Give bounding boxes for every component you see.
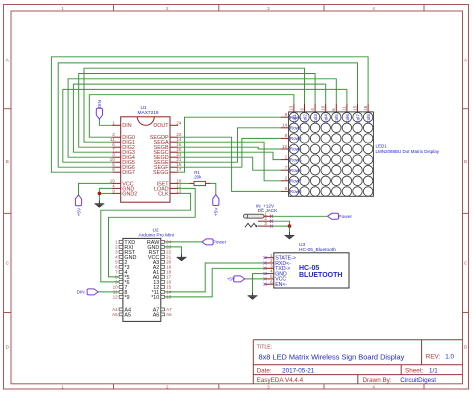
svg-text:Drawn By:: Drawn By: [363,377,392,384]
svg-text:Row8: Row8 [290,189,302,194]
svg-text:3: 3 [299,108,304,111]
ground (U2) [177,254,187,261]
svg-text:TITLE:: TITLE: [257,345,273,351]
svg-text:Col6: Col6 [345,114,350,124]
svg-text:DIG7: DIG7 [122,170,135,176]
svg-text:A6: A6 [166,312,172,317]
wire DIG7 to Col8 [51,57,368,172]
LED matrix LED1 LMN2088BU [281,104,440,196]
svg-text:4: 4 [310,108,315,111]
svg-text:Date:: Date: [257,368,272,375]
wire +5V flag to U3 VCC [245,278,265,280]
svg-text:DIN: DIN [97,100,103,109]
ground (DC jack) [285,232,295,239]
svg-text:13: 13 [176,188,182,193]
svg-text:DIN: DIN [77,290,85,295]
wire DIG1 to Col2 [84,68,305,142]
svg-text:Power: Power [213,240,227,246]
svg-text:LED1: LED1 [376,144,388,149]
svg-text:CircuitDigest: CircuitDigest [400,377,436,384]
wire SEGB to Row4 [178,147,281,149]
svg-text:Col4: Col4 [324,114,329,124]
svg-text:2017-05-21: 2017-05-21 [282,368,315,375]
connector DC jack IN +12V [244,203,279,227]
wire DIN flag to U2 pin8 [98,291,119,293]
wire SEGG to Row1 [178,117,281,172]
svg-text:Col5: Col5 [334,114,339,124]
junction U1 ground [98,192,102,196]
wire DC jack pin3 to ground [272,225,290,227]
net flag Power (U2 RAW) [202,239,227,246]
svg-text:14: 14 [282,123,288,128]
svg-text:A5: A5 [112,312,118,317]
svg-text:1/1: 1/1 [429,368,438,375]
wire U2 RAW to Power flag [165,241,202,243]
svg-text:Col3: Col3 [313,114,318,124]
wire DIN flag to U1 DIN [99,119,112,125]
svg-text:+5V: +5V [76,207,82,216]
wire U1 GND/GND2 to ground [99,188,112,200]
module U3 HC-05 Bluetooth [264,242,350,288]
svg-text:24: 24 [176,120,182,125]
junction DC jack ground [288,224,292,228]
wire DIG0 to Col1 [89,95,294,138]
IC U1 MAX7219 [110,105,182,202]
power flag +5V (R1) [213,195,220,217]
svg-text:Col8: Col8 [366,114,371,124]
svg-text:Row5: Row5 [290,157,302,162]
wire U3 GND to ground [253,274,266,293]
svg-text:BLUETOOTH: BLUETOOTH [299,272,342,279]
svg-text:1: 1 [285,154,288,159]
svg-text:+5V: +5V [227,277,236,282]
svg-text:EN<-: EN<- [275,282,287,288]
wire DIG4 to Col5 [68,79,336,157]
svg-text:*9: *9 [124,295,129,301]
svg-text:8: 8 [285,133,288,138]
svg-text:DC JACK: DC JACK [258,208,279,213]
wire SEGA to Row7 [178,142,281,181]
svg-text:2: 2 [285,176,288,181]
svg-text:13: 13 [289,105,294,111]
svg-text:Col1: Col1 [292,114,297,124]
svg-text:A: A [464,58,467,63]
svg-text:5: 5 [285,186,288,191]
svg-text:7: 7 [285,165,288,170]
svg-text:SEGG: SEGG [153,170,169,176]
power flag +5V (U3 VCC) [227,276,245,282]
power flag +5V (U1 VCC) [75,195,82,217]
svg-text:A6: A6 [153,312,160,318]
svg-text:Row4: Row4 [290,147,302,152]
ground (U1) [95,200,105,207]
svg-text:HC-05_Bluetooth: HC-05_Bluetooth [299,247,336,253]
net flag DIN (U1) [96,100,103,120]
wire DIG3 to Col4 [73,84,325,152]
wire U2 *11 to U3 RXD [165,263,265,292]
svg-text:DOUT: DOUT [153,123,169,129]
svg-text:Row6: Row6 [290,168,302,173]
svg-text:Power: Power [338,214,352,220]
wire DC jack pin1 to Power flag [272,215,328,217]
title block [253,340,462,384]
ground (U3) [248,292,258,299]
svg-text:EasyEDA V4.4.4: EasyEDA V4.4.4 [257,377,304,384]
svg-text:1.0: 1.0 [445,353,454,360]
svg-text:+5V: +5V [214,207,220,216]
svg-text:12: 12 [282,144,288,149]
svg-text:8x8 LED Matrix Wireless Sign B: 8x8 LED Matrix Wireless Sign Board Displ… [259,353,405,362]
wire DC jack pin2 to ground [272,221,290,226]
svg-text:Col7: Col7 [355,114,360,124]
wire junction to ground [289,226,291,232]
svg-text:GND2: GND2 [122,191,137,197]
IC U2 Arduino Pro Mini [112,228,174,322]
wire U1 VCC to +5V flag [79,183,113,194]
svg-text:*10: *10 [151,295,159,301]
wire SEGD to Row6 [178,157,281,170]
wire SEGE to Row2 [178,128,281,162]
wire DIG2 to Col3 [79,74,315,148]
wire DIG6 to Col7 [58,63,357,167]
svg-text:LMN2088BU Dot Matrix Display: LMN2088BU Dot Matrix Display [376,149,440,154]
svg-text:B: B [464,159,467,164]
svg-text:6: 6 [331,108,336,111]
svg-text:Sheet:: Sheet: [405,368,423,375]
wire U1 LOAD to U2 *5 [109,188,196,277]
svg-text:B: B [6,159,9,164]
wire R1 to +5V flag [210,183,216,194]
svg-text:A: A [6,58,9,63]
svg-text:12: 12 [113,295,119,300]
svg-text:A5: A5 [124,312,131,318]
wire U2 *10 to U3 TXD [165,268,265,297]
wire DIG5 to Col6 [63,89,347,162]
svg-text:17: 17 [176,167,182,172]
svg-text:Row3: Row3 [290,136,302,141]
wire U1 CLK to U2 *6 [101,193,191,282]
svg-text:MAX7219: MAX7219 [138,110,159,116]
svg-text:10: 10 [321,105,326,111]
svg-text:Arduino Pro Mini: Arduino Pro Mini [139,232,174,238]
svg-text:Col2: Col2 [302,114,307,124]
wire U2 GND to ground [165,247,182,254]
svg-text:15: 15 [352,105,357,111]
svg-text:DIN: DIN [122,123,131,129]
wire SEGC to Row5 [178,152,281,159]
svg-text:CLK: CLK [158,191,169,197]
net flag Power (DC jack) [328,213,353,220]
svg-text:16: 16 [363,105,368,111]
wire SEGDP to Row8 [178,137,281,191]
svg-text:20k: 20k [194,174,202,179]
svg-text:9: 9 [285,112,288,117]
svg-text:Row2: Row2 [290,126,302,131]
svg-text:Row7: Row7 [290,179,302,184]
wire SEGF to Row3 [178,138,281,167]
svg-text:11: 11 [342,106,347,111]
net flag DIN (U2) [77,289,99,295]
resistor R1 20k [178,170,210,186]
svg-text:REV:: REV: [426,353,441,360]
